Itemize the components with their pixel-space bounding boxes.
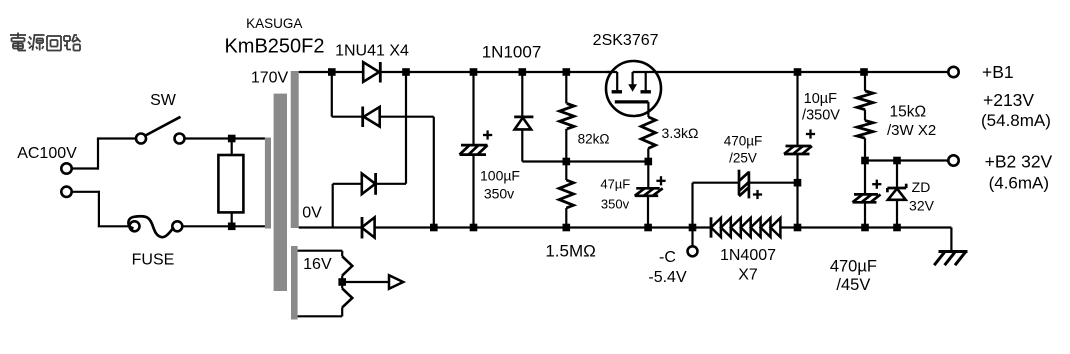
svg-text:+B1: +B1 (982, 62, 1014, 82)
svg-text:32V: 32V (909, 198, 935, 214)
svg-text:-5.4V: -5.4V (648, 269, 687, 286)
svg-text:+B2 32V: +B2 32V (985, 151, 1053, 171)
svg-text:2SK3767: 2SK3767 (593, 32, 659, 49)
svg-text:10µF: 10µF (804, 91, 837, 107)
svg-text:470µF: 470µF (830, 258, 877, 276)
svg-text:1.5MΩ: 1.5MΩ (545, 241, 596, 260)
svg-text:(4.6mA): (4.6mA) (989, 174, 1049, 193)
svg-text:FUSE: FUSE (132, 252, 175, 269)
svg-text:-C: -C (659, 249, 676, 266)
svg-text:KmB250F2: KmB250F2 (224, 36, 324, 58)
svg-text:1NU41 X4: 1NU41 X4 (335, 43, 409, 60)
svg-text:350v: 350v (601, 197, 630, 212)
svg-text:350v: 350v (484, 186, 514, 202)
svg-text:SW: SW (150, 92, 177, 109)
svg-text:X7: X7 (738, 267, 758, 284)
svg-text:/25V: /25V (729, 151, 757, 166)
svg-text:16V: 16V (303, 256, 332, 273)
svg-text:+213V: +213V (983, 90, 1034, 110)
svg-text:100µF: 100µF (480, 168, 520, 184)
svg-text:AC100V: AC100V (17, 145, 77, 162)
svg-text:/45V: /45V (836, 276, 870, 294)
svg-text:15kΩ: 15kΩ (890, 104, 927, 121)
svg-text:1N4007: 1N4007 (720, 247, 776, 264)
svg-text:47µF: 47µF (600, 177, 630, 192)
svg-text:ZD: ZD (912, 179, 931, 195)
svg-text:1N1007: 1N1007 (482, 42, 542, 61)
svg-text:/3W X2: /3W X2 (887, 122, 936, 139)
svg-text:(54.8mA): (54.8mA) (981, 111, 1051, 130)
svg-text:3.3kΩ: 3.3kΩ (662, 125, 699, 141)
svg-text:0V: 0V (302, 205, 322, 222)
svg-text:/350V: /350V (802, 107, 840, 123)
svg-text:170V: 170V (251, 70, 289, 87)
svg-text:82kΩ: 82kΩ (578, 132, 610, 147)
svg-text:KASUGA: KASUGA (246, 16, 302, 31)
svg-text:470µF: 470µF (724, 133, 763, 148)
